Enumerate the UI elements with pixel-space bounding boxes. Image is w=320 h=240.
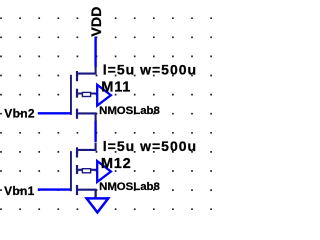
svg-text:l=5u w=500u: l=5u w=500u: [103, 138, 197, 154]
wire Vbn2 to M11 gate: [38, 112, 71, 114]
wire Vbn1 to M12 gate: [38, 188, 71, 190]
svg-text:VDD: VDD: [89, 7, 105, 37]
M11 bulk marker rectangle: [82, 92, 90, 96]
M11 drain lead: [78, 66, 96, 73]
M11 source lead: [78, 113, 96, 121]
M11 bulk contact bar: [76, 89, 78, 98]
transistor M11: [71, 66, 111, 121]
svg-text:l=5u w=500u: l=5u w=500u: [103, 62, 197, 78]
svg-text:NMOSLab8: NMOSLab8: [99, 105, 160, 117]
svg-text:M11: M11: [101, 80, 131, 96]
svg-text:Vbn1: Vbn1: [4, 184, 35, 198]
M12 source contact bar: [76, 185, 78, 195]
transistor M12: [71, 143, 111, 198]
M12 bulk contact bar: [76, 165, 78, 174]
ground symbol: [87, 190, 109, 213]
wire VDD vertical: [94, 37, 96, 68]
M12 gate line: [70, 151, 72, 191]
M12 bulk marker rectangle: [82, 169, 90, 173]
M11 bulk arrow triangle: [97, 85, 111, 106]
M11 drain contact bar: [76, 71, 78, 81]
ground triangle: [87, 198, 109, 212]
M11 source contact bar: [76, 109, 78, 119]
M12 bulk arrow triangle: [97, 161, 111, 182]
M12 source lead: [78, 190, 96, 198]
M12 drain contact bar: [76, 147, 78, 157]
ground stub: [95, 190, 97, 198]
M11 gate line: [70, 75, 72, 115]
M11 bulk lead: [78, 92, 98, 94]
wire M11 source to M12 drain: [94, 121, 96, 143]
svg-text:Vbn2: Vbn2: [4, 107, 35, 121]
svg-text:NMOSLab8: NMOSLab8: [99, 181, 160, 193]
M12 bulk lead: [78, 169, 98, 171]
M12 drain lead: [78, 143, 96, 150]
svg-text:M12: M12: [101, 156, 132, 172]
